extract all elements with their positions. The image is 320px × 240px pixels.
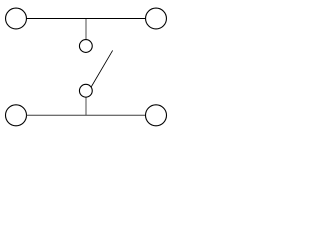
switch S1 fixed contact (top small circle) <box>79 40 92 53</box>
terminal T3 (bottom-left, open circle) <box>6 105 27 126</box>
switch S1 moving contact (bottom small circle) <box>79 84 92 97</box>
switch S1 lever (open position, diagonal) <box>91 50 113 87</box>
terminal T2 (top-right, open circle) <box>146 8 167 29</box>
terminal T1 (top-left, open circle) <box>6 8 27 29</box>
terminal T4 (bottom-right, open circle) <box>146 105 167 126</box>
wire (stub from switch moving contact down to bottom rail) <box>85 97 87 115</box>
wire (bottom rail, T3 to T4) <box>27 114 146 116</box>
wire (stub from top rail down to switch fixed contact) <box>85 19 87 40</box>
wire (top rail, T1 to T2) <box>27 18 146 20</box>
